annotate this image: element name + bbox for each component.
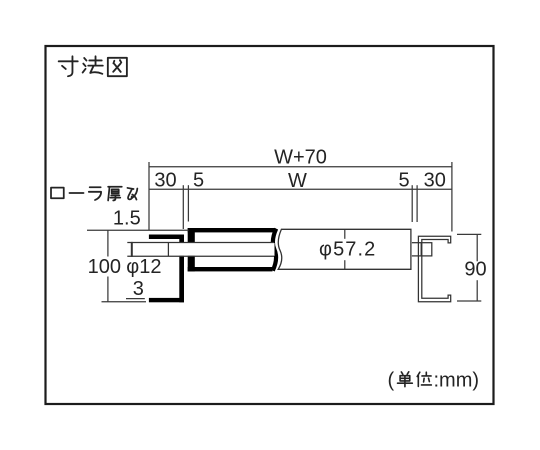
svg-text:90: 90 (464, 258, 486, 280)
svg-text:5: 5 (193, 169, 204, 191)
svg-text:W+70: W+70 (274, 147, 327, 169)
svg-text:1.5: 1.5 (113, 207, 141, 229)
svg-text::mm): :mm) (434, 369, 480, 391)
svg-text:30: 30 (154, 169, 176, 191)
svg-text:100: 100 (88, 256, 121, 278)
svg-text:φ57.2: φ57.2 (319, 239, 376, 261)
svg-text:φ12: φ12 (126, 256, 161, 278)
svg-text:(: ( (388, 369, 395, 391)
svg-text:W: W (288, 170, 307, 192)
svg-text:3: 3 (133, 278, 144, 300)
svg-text:5: 5 (398, 169, 409, 191)
svg-text:30: 30 (424, 169, 446, 191)
